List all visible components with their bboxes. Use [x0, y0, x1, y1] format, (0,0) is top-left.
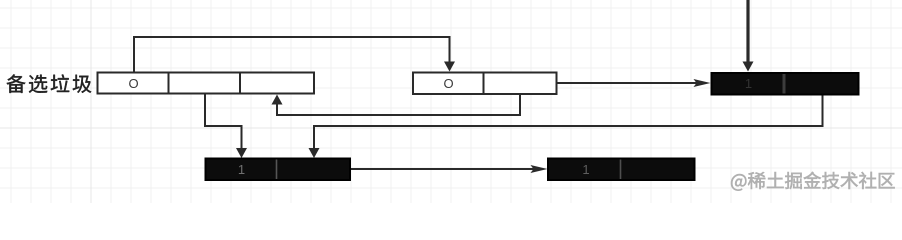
wire from top edge into node C top [746, 0, 749, 62]
node A: white 3-cell box with O [98, 73, 315, 94]
svg-text:O: O [443, 76, 453, 91]
wire from node A cell2 bottom to node D top [205, 94, 242, 150]
node B: white 2-cell box with O [413, 73, 557, 95]
wire from node B right to node C left [557, 82, 698, 84]
node C: black 2-cell box with 1 [712, 73, 859, 95]
svg-text:1: 1 [745, 76, 752, 91]
wire from node B cell2 bottom to node A cell3 bottom [277, 94, 520, 115]
wire from node A cell1 top to node B top [134, 37, 450, 73]
svg-text:1: 1 [582, 162, 589, 177]
wire from node D right to node E left [350, 168, 534, 170]
svg-text:O: O [128, 76, 138, 91]
label 备选垃圾 [7, 74, 92, 93]
watermark @稀土掘金技术社区 [731, 172, 895, 191]
svg-text:1: 1 [238, 162, 245, 177]
node D: black 2-cell box with 1 [206, 159, 351, 181]
node E: black 2-cell box with 1 [548, 159, 695, 181]
wire from node C bottom to node D cell2 top [314, 95, 823, 150]
